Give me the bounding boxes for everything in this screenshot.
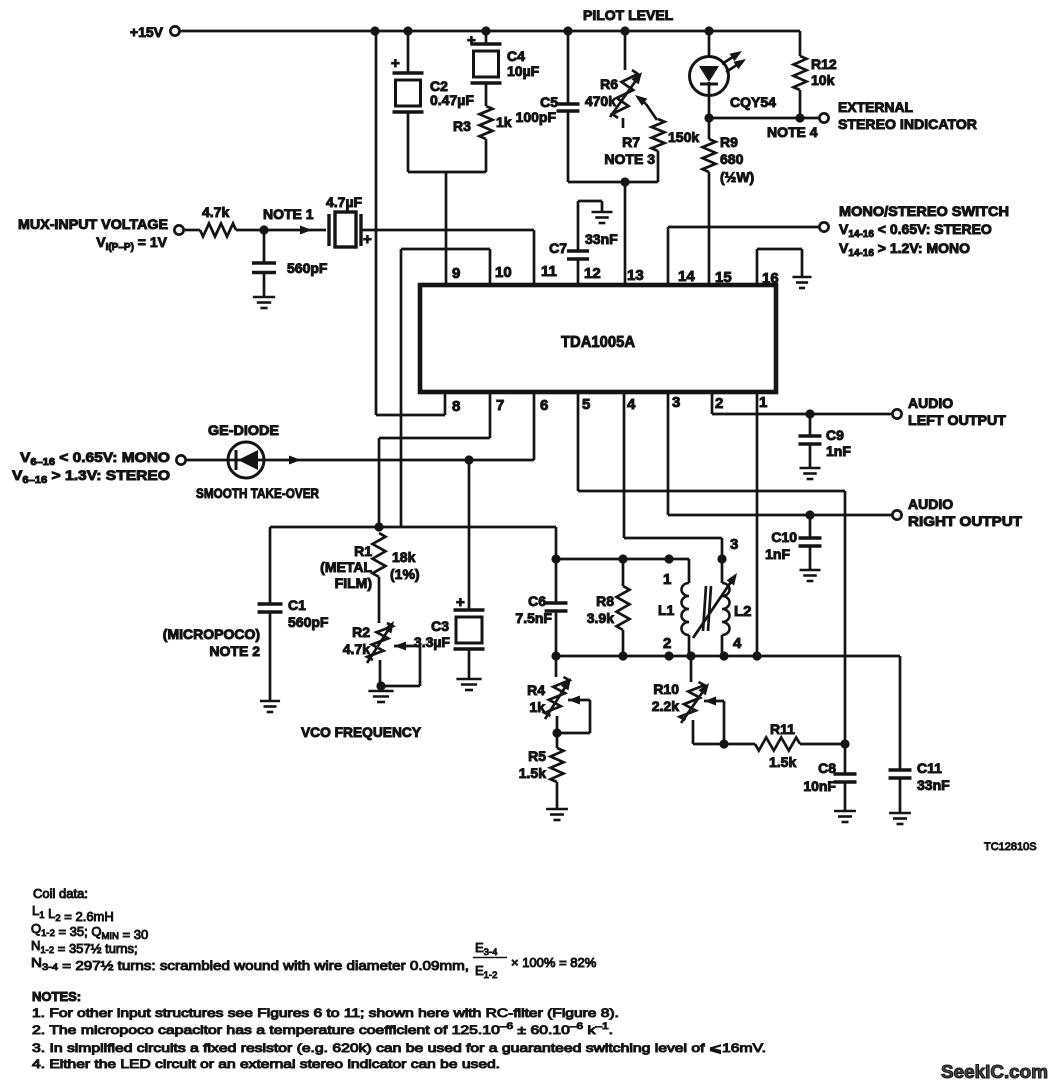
svg-text:R12: R12 — [811, 56, 837, 72]
svg-text:1.5k: 1.5k — [769, 754, 796, 770]
svg-text:6: 6 — [540, 397, 548, 414]
svg-text:C3: C3 — [431, 618, 449, 634]
svg-text:R7: R7 — [622, 134, 640, 150]
svg-text:8: 8 — [452, 398, 460, 415]
svg-text:EXTERNAL: EXTERNAL — [838, 99, 913, 115]
svg-text:14: 14 — [678, 268, 695, 285]
svg-text:+: + — [467, 32, 476, 49]
svg-text:1k: 1k — [529, 699, 545, 715]
svg-text:FILM): FILM) — [335, 575, 372, 591]
svg-text:SeekIC.com: SeekIC.com — [941, 1062, 1048, 1082]
svg-text:NOTE 4: NOTE 4 — [767, 124, 818, 140]
svg-text:5: 5 — [582, 396, 590, 413]
svg-text:C10: C10 — [771, 529, 797, 545]
svg-text:3: 3 — [730, 536, 738, 553]
svg-text:LEFT OUTPUT: LEFT OUTPUT — [908, 412, 1006, 428]
svg-text:NOTES:: NOTES: — [32, 989, 81, 1004]
svg-text:C9: C9 — [826, 427, 844, 443]
svg-text:+: + — [363, 231, 372, 248]
svg-text:(½W): (½W) — [720, 169, 754, 185]
svg-text:R3: R3 — [453, 118, 471, 134]
svg-text:18k: 18k — [392, 549, 416, 565]
svg-text:L2: L2 — [734, 603, 752, 620]
svg-text:470k: 470k — [585, 93, 616, 109]
svg-text:2: 2 — [663, 635, 671, 652]
svg-text:SMOOTH TAKE-OVER: SMOOTH TAKE-OVER — [196, 485, 319, 501]
svg-text:TDA1005A: TDA1005A — [561, 334, 635, 351]
svg-text:12: 12 — [584, 265, 601, 282]
svg-text:13: 13 — [627, 267, 644, 284]
svg-text:C7: C7 — [549, 240, 567, 256]
svg-text:7: 7 — [496, 397, 504, 414]
svg-text:NOTE 3: NOTE 3 — [604, 151, 655, 167]
svg-text:NOTE 1: NOTE 1 — [263, 206, 314, 222]
svg-text:C8: C8 — [818, 760, 836, 776]
svg-text:R11: R11 — [770, 721, 795, 737]
svg-text:NOTE 2: NOTE 2 — [209, 643, 260, 659]
svg-text:2: 2 — [715, 395, 723, 412]
svg-text:150k: 150k — [668, 129, 699, 145]
svg-text:(METAL: (METAL — [320, 559, 372, 575]
svg-text:7.5nF: 7.5nF — [515, 610, 552, 626]
svg-text:1.5k: 1.5k — [519, 765, 546, 781]
svg-text:VCO FREQUENCY: VCO FREQUENCY — [301, 724, 422, 740]
svg-text:3: 3 — [672, 394, 680, 411]
svg-text:GE-DIODE: GE-DIODE — [208, 422, 279, 438]
svg-text:× 100% = 82%: × 100% = 82% — [511, 955, 597, 970]
svg-text:3. In simplified circuits a fi: 3. In simplified circuits a fixed resist… — [32, 1041, 766, 1055]
svg-text:10: 10 — [495, 264, 512, 281]
svg-text:R8: R8 — [596, 593, 614, 609]
svg-text:3.9k: 3.9k — [587, 610, 614, 626]
svg-text:100pF: 100pF — [516, 109, 557, 125]
svg-text:680: 680 — [720, 151, 744, 167]
svg-text:R4: R4 — [527, 682, 545, 698]
svg-text:L1: L1 — [658, 602, 675, 618]
svg-text:CQY54: CQY54 — [730, 94, 776, 110]
svg-text:10nF: 10nF — [803, 778, 836, 794]
svg-text:15: 15 — [715, 269, 732, 286]
svg-text:10µF: 10µF — [507, 63, 540, 79]
svg-text:MUX-INPUT VOLTAGE: MUX-INPUT VOLTAGE — [18, 216, 168, 232]
svg-text:C1: C1 — [288, 597, 306, 613]
svg-text:0.47µF: 0.47µF — [430, 92, 474, 108]
svg-text:AUDIO: AUDIO — [908, 496, 953, 512]
svg-text:Coil data:: Coil data: — [33, 886, 88, 901]
svg-text:16: 16 — [762, 270, 779, 287]
svg-text:9: 9 — [452, 265, 460, 282]
svg-text:R9: R9 — [720, 134, 738, 150]
svg-text:R1: R1 — [354, 543, 372, 559]
svg-text:RIGHT OUTPUT: RIGHT OUTPUT — [908, 513, 1022, 529]
svg-text:C5: C5 — [540, 94, 558, 110]
svg-text:+: + — [391, 55, 400, 72]
svg-text:1: 1 — [759, 394, 767, 411]
svg-text:TC12810S: TC12810S — [984, 841, 1037, 853]
svg-text:10k: 10k — [811, 72, 835, 88]
svg-text:4: 4 — [627, 396, 636, 413]
svg-text:1: 1 — [663, 571, 671, 588]
svg-text:560pF: 560pF — [288, 614, 329, 630]
svg-text:R6: R6 — [600, 76, 618, 92]
svg-text:2.2k: 2.2k — [652, 698, 679, 714]
svg-text:33nF: 33nF — [585, 231, 618, 247]
svg-text:1. For other input structures: 1. For other input structures see Figure… — [32, 1006, 619, 1020]
svg-text:C6: C6 — [528, 593, 546, 609]
svg-text:4.7µF: 4.7µF — [326, 194, 363, 210]
svg-text:11: 11 — [541, 263, 557, 280]
svg-text:AUDIO: AUDIO — [908, 395, 953, 411]
svg-text:1nF: 1nF — [765, 546, 790, 562]
svg-text:+: + — [456, 594, 465, 611]
svg-text:1nF: 1nF — [826, 443, 851, 459]
svg-text:MONO/STEREO SWITCH: MONO/STEREO SWITCH — [839, 203, 1009, 219]
svg-text:33nF: 33nF — [917, 777, 950, 793]
svg-text:560pF: 560pF — [287, 260, 328, 276]
svg-text:N3-4 = 297½ turns: scrambled w: N3-4 = 297½ turns: scrambled wound with … — [31, 955, 469, 973]
svg-text:(1%): (1%) — [390, 566, 420, 582]
svg-text:4.7k: 4.7k — [202, 204, 229, 220]
svg-text:4.7k: 4.7k — [343, 641, 370, 657]
svg-text:C11: C11 — [917, 760, 942, 776]
svg-text:R10: R10 — [653, 681, 679, 697]
svg-text:PILOT LEVEL: PILOT LEVEL — [583, 7, 674, 23]
svg-text:R5: R5 — [528, 748, 546, 764]
svg-text:4: 4 — [733, 635, 742, 652]
svg-text:2. The micropoco capacitor has: 2. The micropoco capacitor has a tempera… — [32, 1021, 613, 1037]
svg-text:R2: R2 — [352, 624, 370, 640]
svg-text:C4: C4 — [507, 48, 525, 64]
svg-text:+15V: +15V — [130, 24, 164, 40]
svg-text:1k: 1k — [496, 114, 512, 130]
svg-text:4. Either the LED circuit or a: 4. Either the LED circuit or an external… — [32, 1057, 500, 1071]
svg-text:(MICROPOCO): (MICROPOCO) — [163, 626, 260, 642]
svg-text:STEREO INDICATOR: STEREO INDICATOR — [838, 116, 977, 132]
